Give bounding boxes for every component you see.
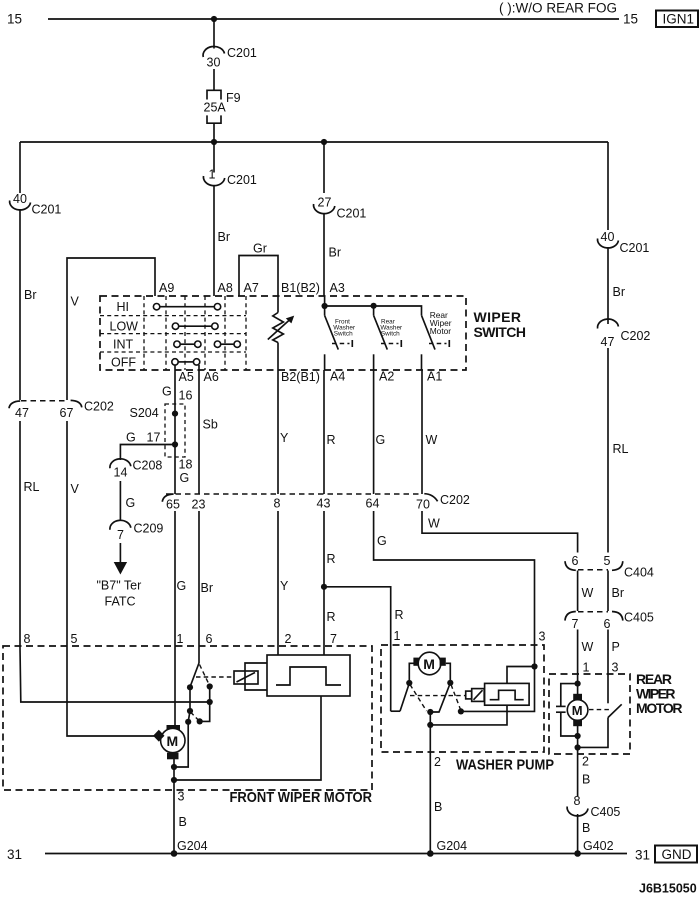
svg-text:C209: C209 <box>134 522 164 536</box>
svg-text:31: 31 <box>7 847 22 862</box>
svg-text:A6: A6 <box>204 370 219 384</box>
svg-text:R: R <box>395 608 404 622</box>
INT row contacts left pair <box>174 341 201 347</box>
svg-text:M: M <box>572 703 583 718</box>
svg-text:47: 47 <box>15 406 29 420</box>
svg-text:M: M <box>423 656 435 672</box>
svg-text:W: W <box>582 586 594 600</box>
svg-text:MOTOR: MOTOR <box>636 700 683 716</box>
connector C405 pin 6 <box>604 611 654 632</box>
wire R branch to washer pump pin 1 <box>324 587 404 711</box>
node A3 bank junction 1 <box>322 303 328 309</box>
svg-text:V: V <box>71 295 80 309</box>
wire rear wiper fixed contact to A1 <box>421 354 423 370</box>
svg-text:G: G <box>180 471 190 485</box>
svg-text:43: 43 <box>317 497 331 511</box>
svg-text:A5: A5 <box>179 370 194 384</box>
wire pin 6 internal stub <box>198 648 200 663</box>
svg-text:B: B <box>434 800 442 814</box>
node ground front wiper <box>171 850 178 857</box>
wire B from C405-8 to ground <box>578 814 591 854</box>
dashed blade 2 alternate <box>451 685 461 710</box>
resistor (intermittent time control) in switch <box>273 296 284 370</box>
rear park switch blade <box>608 704 622 717</box>
svg-text:A1: A1 <box>427 370 442 384</box>
svg-text:1: 1 <box>583 661 590 675</box>
svg-text:FATC: FATC <box>105 595 136 609</box>
connector C201 pin 1 <box>203 168 257 188</box>
node A3 bank junction 2 <box>371 303 377 309</box>
node motor bottom joint 2 <box>171 777 177 783</box>
svg-text:C201: C201 <box>337 207 367 221</box>
front washer switch blade <box>325 306 353 350</box>
node splice junction lower <box>172 441 178 447</box>
svg-text:B: B <box>582 821 590 835</box>
node washer return joint 1 <box>427 709 433 715</box>
svg-text:2: 2 <box>582 755 589 769</box>
svg-text:7: 7 <box>117 528 124 542</box>
svg-text:A7: A7 <box>244 281 259 295</box>
node R branch junction <box>321 584 327 590</box>
svg-text:J6B15050: J6B15050 <box>639 882 697 896</box>
svg-text:A3: A3 <box>330 281 345 295</box>
svg-text:HI: HI <box>117 300 130 314</box>
wire A3 into washer switch bank <box>324 296 326 306</box>
node ground washer <box>427 850 434 857</box>
wire pin 5 internal to motor left brush <box>67 648 158 736</box>
svg-text:1: 1 <box>209 168 216 182</box>
svg-text:B2(B1): B2(B1) <box>281 370 320 384</box>
wire W from A1 to C202-70 <box>422 370 438 494</box>
svg-text:G: G <box>376 433 386 447</box>
svg-text:Y: Y <box>280 579 289 593</box>
wire RL from C202-47 to C404 pin 5 <box>608 348 629 553</box>
svg-text:Br: Br <box>329 246 342 260</box>
svg-text:W: W <box>428 517 440 531</box>
svg-text:Motor: Motor <box>430 326 452 336</box>
resistor arrow <box>268 316 294 340</box>
svg-text:G: G <box>177 579 187 593</box>
svg-text:G204: G204 <box>177 839 208 853</box>
svg-text:67: 67 <box>60 406 74 420</box>
svg-text:6: 6 <box>206 632 213 646</box>
svg-text:FRONT WIPER MOTOR: FRONT WIPER MOTOR <box>230 789 373 806</box>
svg-text:30: 30 <box>207 56 221 70</box>
node washer contact left <box>406 680 412 686</box>
wire Br from C201-27 to switch A3 <box>324 213 341 296</box>
node junction on bus 15 <box>211 16 217 22</box>
node park contact left <box>187 684 193 690</box>
wire C201-30 to fuse F9 <box>213 69 215 90</box>
node park bus end <box>207 699 213 705</box>
svg-text:A9: A9 <box>159 281 174 295</box>
svg-text:SWITCH: SWITCH <box>474 324 527 340</box>
svg-text:3: 3 <box>539 630 546 644</box>
wire Br right column <box>608 247 625 324</box>
svg-text:R: R <box>327 552 336 566</box>
wire RL from C202-47 to front wiper motor pin 8 <box>20 421 40 648</box>
node washer alt contact <box>458 708 464 714</box>
node washer contact right <box>447 680 453 686</box>
wire washer motor return down <box>429 712 431 752</box>
park switch to relay coil dashed link <box>196 676 232 678</box>
svg-text:RL: RL <box>613 442 629 456</box>
connector C202 (lower) dashed line <box>166 493 422 495</box>
svg-text:G: G <box>126 431 136 445</box>
relay coil bracket <box>245 663 267 690</box>
connector C202 pin 65 hook <box>162 494 180 512</box>
switch grid vertical dashed lines <box>144 296 246 370</box>
connector C201 pin 40 (left) <box>10 192 62 217</box>
washer pulse waveform <box>490 690 524 699</box>
svg-text:15: 15 <box>623 12 638 27</box>
wire W from C202-70 to C404 pin 6 <box>422 511 578 553</box>
svg-text:5: 5 <box>71 632 78 646</box>
wire R from A4 to C202-43 <box>324 370 336 494</box>
rear park switch dashed link <box>589 709 612 711</box>
svg-text:B: B <box>582 773 590 787</box>
svg-text:G: G <box>126 496 136 510</box>
node motor bottom joint 1 <box>171 764 177 770</box>
GND box <box>655 846 697 863</box>
dashed blade 1 alternate <box>410 685 427 712</box>
INT row contacts right pair <box>214 341 240 347</box>
washer pump dashed box <box>381 645 544 752</box>
front washer switch label <box>333 318 356 337</box>
wire bus 2 (below fuse) <box>20 141 608 143</box>
svg-text:8: 8 <box>274 497 281 511</box>
svg-text:WASHER PUMP: WASHER PUMP <box>456 757 554 774</box>
svg-text:2: 2 <box>285 632 292 646</box>
svg-text:Br: Br <box>613 285 626 299</box>
wiper switch outer dashed box <box>100 296 466 370</box>
svg-text:G204: G204 <box>437 839 468 853</box>
wire from bus 15 down to C201 pin 30 <box>213 19 215 49</box>
connector C201 pin 40 (right) <box>598 230 650 255</box>
svg-text:F9: F9 <box>226 91 241 105</box>
svg-text:17: 17 <box>147 431 161 445</box>
node contact mid left <box>187 708 193 714</box>
svg-text:C202: C202 <box>84 400 114 414</box>
svg-text:65: 65 <box>166 498 180 512</box>
label B7 Ter FATC <box>97 579 142 609</box>
washer pump switch blade 1 <box>400 683 409 711</box>
wire washer pump pin 1 to switch blade <box>391 710 400 712</box>
wire Br from C201-1 to switch A8 <box>214 185 230 296</box>
IGN1 box <box>656 11 698 28</box>
svg-text:Br: Br <box>612 586 625 600</box>
connector C208 pin 14 <box>110 459 163 480</box>
svg-text:GND: GND <box>662 847 692 862</box>
wire pin 1 internal to motor top brush <box>174 648 176 726</box>
connector C202 pin 47 (right) <box>598 319 651 349</box>
wire contact mid left to lower node <box>188 711 190 722</box>
svg-text:W: W <box>426 433 438 447</box>
wire B from washer pump to ground <box>430 752 442 854</box>
svg-text:23: 23 <box>192 498 206 512</box>
svg-text:Br: Br <box>24 288 37 302</box>
svg-text:40: 40 <box>601 230 615 244</box>
wire G branch from splice to C208 <box>120 431 175 461</box>
wire relay output down and left to motor joint <box>174 696 321 780</box>
wire pin 3 down to alt contact <box>461 667 535 712</box>
svg-text:INT: INT <box>113 338 134 352</box>
wire front washer fixed contact to A4 <box>324 354 326 370</box>
svg-text:OFF: OFF <box>111 356 136 370</box>
wire V from switch A9: loop over to left <box>67 258 155 400</box>
svg-text:3: 3 <box>612 661 619 675</box>
wire A3 branch from bus2 down to C201 pin 27 <box>323 142 325 193</box>
wire G from A2 to C202-64 <box>374 370 386 494</box>
wire Gr loop A7 to B1(B2) <box>239 242 278 297</box>
wire left branch RL down to C201 pin 40 <box>19 142 21 193</box>
svg-text:C208: C208 <box>133 459 163 473</box>
rear washer switch blade <box>374 306 402 350</box>
svg-text:16: 16 <box>179 389 193 403</box>
node washer return joint 2 <box>427 722 433 728</box>
svg-text:WIPER: WIPER <box>474 309 522 325</box>
wire park contact left down <box>189 687 191 711</box>
connector C404 pin 5 <box>604 554 654 580</box>
svg-text:R: R <box>327 610 336 624</box>
svg-text:47: 47 <box>601 335 615 349</box>
svg-text:2: 2 <box>434 755 441 769</box>
svg-text:W: W <box>582 640 594 654</box>
capacitor bypass left branch <box>556 684 578 736</box>
wire center from bus2 down to C201 pin 1 <box>213 142 215 173</box>
node junction bus2 center <box>211 139 217 145</box>
connector C201 pin 30 <box>203 46 257 70</box>
washer intermittent relay box <box>485 683 529 705</box>
node rear motor bottom junction 1 <box>575 733 581 739</box>
wire Sb from A6 down <box>199 365 218 494</box>
wire G from C202-65 to front wiper motor pin 1 <box>175 511 186 648</box>
svg-text:8: 8 <box>24 632 31 646</box>
svg-text:C202: C202 <box>440 493 470 507</box>
wire pin 8 internal to park bus <box>20 648 210 702</box>
wire fuse F9 to bus 2 <box>213 123 215 142</box>
wire Br left column <box>20 209 37 400</box>
wiper switch label <box>474 309 527 340</box>
switch grid horizontal dashed lines <box>100 316 246 352</box>
svg-text:Br: Br <box>218 230 231 244</box>
svg-text:A2: A2 <box>379 370 394 384</box>
wire G from C202-64 to washer pump pin 3 <box>374 511 546 667</box>
HI row contacts <box>153 304 220 310</box>
OFF row contacts <box>172 359 200 365</box>
node ground rear wiper <box>574 850 581 857</box>
wire Br from C202-23 to front wiper motor pin 6 <box>199 511 213 648</box>
wire relay box bottom to motor return <box>430 705 507 725</box>
wire B from front wiper motor to ground <box>174 790 187 854</box>
svg-text:18: 18 <box>179 458 193 472</box>
washer motor right bracket <box>446 663 451 683</box>
wire right bus branch down to C201 pin 40 (right) <box>607 142 609 230</box>
rear wiper motor label <box>636 671 683 716</box>
node lower right contact <box>197 718 203 724</box>
connector C202 pin 47 hook <box>9 401 29 420</box>
wire Y from C202-8 to front wiper motor pin 2 <box>278 511 289 655</box>
node washer pin 3 junction <box>531 663 537 669</box>
dashed mechanical link washer <box>410 695 465 697</box>
svg-text:R: R <box>327 433 336 447</box>
ground bus 31 <box>45 853 627 855</box>
svg-text:M: M <box>167 733 179 749</box>
svg-text:1: 1 <box>394 629 401 643</box>
rear wiper motor switch label <box>430 310 452 336</box>
connector C405 pin 8 <box>567 794 620 819</box>
connector C404 dashed line <box>578 569 608 571</box>
relay coil box <box>234 671 258 684</box>
wire lower left contact to motor bottom joint <box>174 722 188 767</box>
svg-text:14: 14 <box>114 466 128 480</box>
wire motor bottom to pin 3 <box>173 759 175 790</box>
washer relay coil box <box>472 689 485 702</box>
rear wiper switch blade <box>422 315 450 349</box>
wire V from C202-67 to front wiper motor pin 5 <box>67 421 80 648</box>
wire R from C202-43 down <box>324 511 336 655</box>
connector C405 pin 7 <box>565 612 579 632</box>
svg-text:7: 7 <box>572 617 579 631</box>
motor M rear wiper <box>567 684 588 754</box>
svg-text:G402: G402 <box>583 839 614 853</box>
svg-text:"B7" Ter: "B7" Ter <box>97 579 142 593</box>
svg-text:27: 27 <box>318 196 332 210</box>
svg-text:B: B <box>179 815 187 829</box>
svg-text:C201: C201 <box>620 241 650 255</box>
wire B rear motor down <box>578 754 591 796</box>
fuse F9 25A <box>204 90 241 123</box>
svg-text:C201: C201 <box>227 173 257 187</box>
connector C202 pins 47/67 dashed line <box>21 400 66 402</box>
splice S204 dashed box <box>130 404 186 457</box>
front wiper motor dashed box <box>3 646 372 790</box>
wire park contact right down <box>209 687 211 703</box>
svg-text:Br: Br <box>201 581 214 595</box>
svg-text:C405: C405 <box>591 805 621 819</box>
svg-text:7: 7 <box>330 632 337 646</box>
wire G from A5 down to splice S204 <box>162 365 192 494</box>
arrow to B7 FATC <box>114 543 127 575</box>
svg-text:15: 15 <box>7 12 22 27</box>
svg-text:S204: S204 <box>130 406 159 420</box>
node rear motor top junction <box>575 681 581 687</box>
svg-text:B1(B2): B1(B2) <box>281 281 320 295</box>
connector C405 dashed line <box>578 611 608 613</box>
connector C201 pin 27 <box>314 196 367 221</box>
wire G from C208 to C209 <box>120 481 135 521</box>
node lower left contact <box>185 719 191 725</box>
rear washer switch label <box>380 318 403 337</box>
svg-text:6: 6 <box>572 554 579 568</box>
node junction bus2 right-center <box>321 139 327 145</box>
svg-text:C201: C201 <box>227 46 257 60</box>
wire Br from C404 to C405 <box>608 571 624 612</box>
svg-text:G: G <box>162 385 172 399</box>
svg-text:C405: C405 <box>624 611 654 625</box>
svg-text:C202: C202 <box>621 329 651 343</box>
washer coil terminal bracket <box>466 691 472 699</box>
LOW row contacts <box>172 323 218 329</box>
svg-text:( ):W/O REAR FOG: ( ):W/O REAR FOG <box>499 1 617 16</box>
svg-text:A8: A8 <box>218 281 233 295</box>
svg-text:1: 1 <box>177 632 184 646</box>
svg-text:IGN1: IGN1 <box>663 12 695 27</box>
park switch blade dashed alternate <box>200 665 210 686</box>
intermittent relay box <box>267 655 350 696</box>
svg-text:C404: C404 <box>624 566 654 580</box>
svg-text:70: 70 <box>416 498 430 512</box>
motor M front wiper <box>153 725 185 759</box>
connector C209 pin 7 <box>110 520 164 542</box>
node park contact right <box>207 683 213 689</box>
svg-text:64: 64 <box>366 497 380 511</box>
node splice junction upper <box>172 411 178 417</box>
svg-text:Gr: Gr <box>253 242 267 256</box>
node rear motor bottom junction 2 <box>575 744 581 750</box>
connector C404 pin 6 <box>565 554 579 570</box>
svg-text:5: 5 <box>604 554 611 568</box>
wire W from C405 to rear wiper motor pin 1 <box>578 630 594 684</box>
svg-text:Sb: Sb <box>203 418 218 432</box>
wire rear washer fixed contact to A2 <box>373 354 375 370</box>
svg-text:P: P <box>612 640 620 654</box>
dashed link mid-left to lower-right contact <box>191 712 200 721</box>
svg-text:Switch: Switch <box>381 330 400 337</box>
svg-text:3: 3 <box>178 790 185 804</box>
pulse waveform symbol <box>276 667 341 685</box>
wire bus 15 (top) <box>48 18 619 20</box>
wire P from C405 to rear wiper motor pin 3 <box>608 630 620 704</box>
wire W from C404 to C405 <box>578 571 594 612</box>
svg-text:RL: RL <box>24 480 40 494</box>
park switch blade solid <box>190 663 199 687</box>
svg-text:G: G <box>377 534 387 548</box>
wire bank feed horizontal <box>325 306 422 315</box>
rear wiper motor dashed box <box>549 674 630 754</box>
svg-text:Switch: Switch <box>334 330 353 337</box>
svg-text:LOW: LOW <box>110 320 139 334</box>
wire pin 3 stub into relay box top <box>507 667 535 684</box>
motor M washer pump <box>413 652 445 675</box>
svg-text:31: 31 <box>635 848 650 863</box>
svg-text:25A: 25A <box>204 101 227 115</box>
svg-text:C201: C201 <box>32 203 62 217</box>
svg-text:A4: A4 <box>330 370 345 384</box>
svg-text:V: V <box>71 482 80 496</box>
washer motor left bracket <box>409 663 414 683</box>
svg-text:40: 40 <box>13 192 27 206</box>
connector C202 pin 70 hook <box>416 493 470 512</box>
svg-text:Y: Y <box>280 431 289 445</box>
wire rear switch to motor return <box>578 718 608 748</box>
connector C202 pin 67 hook <box>60 400 114 421</box>
svg-text:8: 8 <box>574 794 581 808</box>
svg-text:6: 6 <box>604 617 611 631</box>
wire Y from B2(B1) to C202-8 <box>278 370 289 494</box>
wire lower right contact up to park bus <box>200 702 210 721</box>
washer pump switch blade 2 <box>430 683 450 712</box>
